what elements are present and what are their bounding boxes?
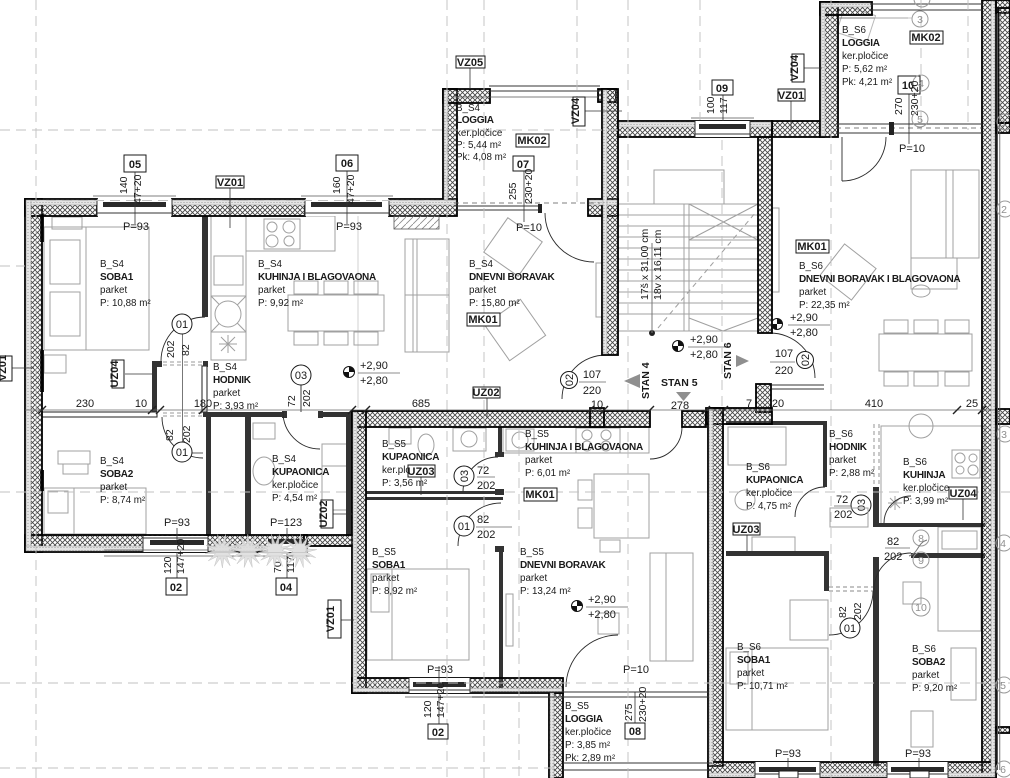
svg-text:230: 230 xyxy=(76,398,94,410)
svg-text:202: 202 xyxy=(477,480,495,492)
svg-text:4: 4 xyxy=(1000,538,1006,550)
svg-text:P=93: P=93 xyxy=(905,748,931,760)
svg-text:P: 8,92 m²: P: 8,92 m² xyxy=(372,586,418,597)
svg-text:+2,90: +2,90 xyxy=(790,312,818,324)
svg-text:01: 01 xyxy=(458,521,470,533)
svg-text:MK02: MK02 xyxy=(911,32,940,44)
svg-text:MK01: MK01 xyxy=(468,314,497,326)
svg-text:7: 7 xyxy=(746,398,752,410)
svg-text:202: 202 xyxy=(884,551,902,563)
svg-text:HODNIK: HODNIK xyxy=(829,442,868,453)
svg-text:ker.pločice: ker.pločice xyxy=(456,128,503,139)
svg-text:02: 02 xyxy=(170,582,182,594)
svg-text:82: 82 xyxy=(477,514,489,526)
svg-text:DNEVNI BORAVAK: DNEVNI BORAVAK xyxy=(520,560,607,571)
svg-text:B_S4: B_S4 xyxy=(100,456,125,467)
svg-text:P=93: P=93 xyxy=(427,664,453,676)
svg-text:P: 2,88 m²: P: 2,88 m² xyxy=(829,468,875,479)
svg-text:VZ01: VZ01 xyxy=(0,355,9,381)
svg-text:P: 10,88 m²: P: 10,88 m² xyxy=(100,298,151,309)
svg-text:120: 120 xyxy=(162,556,174,574)
svg-text:ker.pločice: ker.pločice xyxy=(903,483,950,494)
svg-text:01: 01 xyxy=(176,447,188,459)
svg-text:LOGGIA: LOGGIA xyxy=(456,115,494,126)
svg-text:VZ01: VZ01 xyxy=(778,90,804,102)
svg-text:9: 9 xyxy=(918,555,924,567)
svg-text:parket: parket xyxy=(737,668,765,679)
svg-text:202: 202 xyxy=(477,529,495,541)
svg-text:STAN 6: STAN 6 xyxy=(722,342,734,379)
svg-text:LOGGIA: LOGGIA xyxy=(565,714,603,725)
svg-text:UZ03: UZ03 xyxy=(733,524,760,536)
svg-text:KUPAONICA: KUPAONICA xyxy=(746,475,803,486)
svg-text:230+20: 230+20 xyxy=(637,687,649,722)
svg-text:47+20: 47+20 xyxy=(345,174,357,204)
svg-text:04: 04 xyxy=(280,582,293,594)
svg-text:02: 02 xyxy=(564,374,576,386)
svg-text:202: 202 xyxy=(165,340,177,358)
svg-text:160: 160 xyxy=(331,176,343,194)
svg-text:B_S6: B_S6 xyxy=(746,462,771,473)
svg-text:+2,80: +2,80 xyxy=(588,609,616,621)
svg-text:P: 3,85 m²: P: 3,85 m² xyxy=(565,740,611,751)
svg-text:02: 02 xyxy=(800,354,812,366)
svg-text:82: 82 xyxy=(887,536,899,548)
svg-text:B_S6: B_S6 xyxy=(912,644,937,655)
svg-text:147+20: 147+20 xyxy=(175,539,187,574)
svg-text:6: 6 xyxy=(1000,764,1006,776)
svg-text:parket: parket xyxy=(100,285,128,296)
svg-text:B_S5: B_S5 xyxy=(565,701,590,712)
svg-text:685: 685 xyxy=(412,398,430,410)
svg-text:B_S6: B_S6 xyxy=(903,457,928,468)
svg-text:72: 72 xyxy=(477,465,489,477)
svg-text:parket: parket xyxy=(799,287,827,298)
svg-text:UZ02: UZ02 xyxy=(473,387,500,399)
svg-text:B_S5: B_S5 xyxy=(372,547,397,558)
svg-text:SOBA1: SOBA1 xyxy=(372,560,406,571)
svg-text:03: 03 xyxy=(459,470,471,482)
svg-text:STAN 4: STAN 4 xyxy=(640,362,652,399)
svg-text:+2,90: +2,90 xyxy=(690,334,718,346)
svg-text:KUPAONICA: KUPAONICA xyxy=(382,452,439,463)
svg-text:82: 82 xyxy=(180,344,192,356)
svg-text:KUHINJA I BLAGOVAONA: KUHINJA I BLAGOVAONA xyxy=(258,272,376,283)
svg-text:B_S4: B_S4 xyxy=(456,103,481,114)
svg-text:Pk: 2,89 m²: Pk: 2,89 m² xyxy=(565,753,616,764)
svg-text:P: 8,74 m²: P: 8,74 m² xyxy=(100,495,146,506)
svg-text:47+20: 47+20 xyxy=(132,174,144,204)
svg-text:107: 107 xyxy=(775,348,793,360)
svg-text:10: 10 xyxy=(915,602,927,614)
svg-text:P: 9,92 m²: P: 9,92 m² xyxy=(258,298,304,309)
svg-text:120: 120 xyxy=(422,700,434,718)
svg-text:3: 3 xyxy=(1001,429,1007,441)
svg-text:5: 5 xyxy=(917,114,923,126)
svg-text:Pk: 4,21 m²: Pk: 4,21 m² xyxy=(842,77,893,88)
svg-text:DNEVNI BORAVAK: DNEVNI BORAVAK xyxy=(469,272,556,283)
svg-text:B_S6: B_S6 xyxy=(799,261,824,272)
svg-text:+2,80: +2,80 xyxy=(360,375,388,387)
svg-text:220: 220 xyxy=(775,365,793,377)
svg-text:parket: parket xyxy=(829,455,857,466)
svg-text:KUHINJA I BLAGOVAONA: KUHINJA I BLAGOVAONA xyxy=(525,442,643,453)
svg-text:03: 03 xyxy=(295,370,307,382)
svg-text:72: 72 xyxy=(836,494,848,506)
svg-text:117: 117 xyxy=(718,97,730,114)
svg-text:UZ02: UZ02 xyxy=(318,501,330,528)
svg-text:1: 1 xyxy=(1001,117,1007,129)
svg-text:P: 3,93 m²: P: 3,93 m² xyxy=(213,401,259,412)
svg-text:72: 72 xyxy=(286,395,298,407)
svg-text:ker.pločice: ker.pločice xyxy=(746,488,793,499)
svg-text:B_S5: B_S5 xyxy=(382,439,407,450)
svg-text:STAN 5: STAN 5 xyxy=(661,377,698,389)
svg-text:VZ05: VZ05 xyxy=(457,57,483,69)
svg-text:275: 275 xyxy=(623,703,635,721)
svg-text:VZ04: VZ04 xyxy=(570,97,582,124)
svg-text:B_S4: B_S4 xyxy=(213,362,238,373)
svg-text:B_S6: B_S6 xyxy=(737,642,762,653)
svg-text:01: 01 xyxy=(844,623,856,635)
svg-text:20: 20 xyxy=(772,398,784,410)
svg-text:82: 82 xyxy=(837,606,849,618)
svg-text:03: 03 xyxy=(856,499,868,511)
svg-text:P: 3,99 m²: P: 3,99 m² xyxy=(903,496,949,507)
svg-text:LOGGIA: LOGGIA xyxy=(842,38,880,49)
svg-text:117: 117 xyxy=(285,556,297,573)
svg-text:SOBA2: SOBA2 xyxy=(100,469,134,480)
svg-text:278: 278 xyxy=(671,400,689,412)
svg-text:08: 08 xyxy=(629,726,641,738)
svg-text:P=10: P=10 xyxy=(516,222,542,234)
svg-text:3: 3 xyxy=(917,14,923,26)
svg-text:B_S5: B_S5 xyxy=(520,547,545,558)
svg-text:P: 13,24 m²: P: 13,24 m² xyxy=(520,586,571,597)
svg-text:P=10: P=10 xyxy=(623,664,649,676)
svg-text:2: 2 xyxy=(1001,204,1007,216)
svg-text:P: 15,80 m²: P: 15,80 m² xyxy=(469,298,520,309)
svg-text:202: 202 xyxy=(834,509,852,521)
svg-text:P: 4,75 m²: P: 4,75 m² xyxy=(746,501,792,512)
svg-text:parket: parket xyxy=(469,285,497,296)
svg-text:10: 10 xyxy=(135,398,147,410)
svg-text:01: 01 xyxy=(176,319,188,331)
svg-text:P=93: P=93 xyxy=(164,517,190,529)
svg-text:230+20: 230+20 xyxy=(523,169,535,204)
svg-text:B_S5: B_S5 xyxy=(525,429,550,440)
svg-text:107: 107 xyxy=(583,369,601,381)
svg-text:25: 25 xyxy=(966,398,978,410)
svg-text:P: 10,71 m²: P: 10,71 m² xyxy=(737,681,788,692)
svg-text:B_S6: B_S6 xyxy=(842,25,867,36)
svg-text:180: 180 xyxy=(194,398,212,410)
svg-text:ker.pločice: ker.pločice xyxy=(565,727,612,738)
svg-text:05: 05 xyxy=(129,159,141,171)
svg-text:SOBA2: SOBA2 xyxy=(912,657,946,668)
svg-text:100: 100 xyxy=(705,96,717,114)
svg-text:220: 220 xyxy=(583,385,601,397)
svg-text:VZ01: VZ01 xyxy=(217,177,243,189)
svg-text:MK01: MK01 xyxy=(797,241,826,253)
svg-text:+2,90: +2,90 xyxy=(588,594,616,606)
svg-text:ker.pločice: ker.pločice xyxy=(272,480,319,491)
svg-text:202: 202 xyxy=(301,389,313,407)
svg-text:P: 22,35 m²: P: 22,35 m² xyxy=(799,300,850,311)
svg-text:UZ04: UZ04 xyxy=(109,360,121,388)
svg-text:18v x 16,11 cm: 18v x 16,11 cm xyxy=(652,229,664,300)
svg-text:82: 82 xyxy=(164,429,176,441)
svg-text:parket: parket xyxy=(100,482,128,493)
svg-text:Pk: 4,08 m²: Pk: 4,08 m² xyxy=(456,152,507,163)
svg-text:02: 02 xyxy=(432,727,444,739)
svg-text:06: 06 xyxy=(341,158,353,170)
svg-text:202: 202 xyxy=(181,425,193,443)
svg-text:10: 10 xyxy=(591,399,603,411)
svg-text:B_S6: B_S6 xyxy=(829,429,854,440)
svg-text:+2,90: +2,90 xyxy=(360,360,388,372)
svg-text:VZ04: VZ04 xyxy=(789,54,801,81)
svg-text:410: 410 xyxy=(865,398,883,410)
svg-text:P=10: P=10 xyxy=(899,143,925,155)
svg-text:147+20: 147+20 xyxy=(435,683,447,718)
svg-text:270: 270 xyxy=(893,97,905,115)
svg-text:SOBA1: SOBA1 xyxy=(100,272,134,283)
svg-text:B_S4: B_S4 xyxy=(258,259,283,270)
svg-text:UZ03: UZ03 xyxy=(408,466,435,478)
svg-text:parket: parket xyxy=(912,670,940,681)
svg-text:parket: parket xyxy=(525,455,553,466)
svg-text:parket: parket xyxy=(520,573,548,584)
svg-text:UZ04: UZ04 xyxy=(950,488,978,500)
svg-text:P: 9,20 m²: P: 9,20 m² xyxy=(912,683,958,694)
svg-text:B_S4: B_S4 xyxy=(469,259,494,270)
svg-text:5: 5 xyxy=(1000,680,1006,692)
svg-text:+2,80: +2,80 xyxy=(790,327,818,339)
svg-text:P=123: P=123 xyxy=(270,517,302,529)
svg-text:KUHINJA: KUHINJA xyxy=(903,470,945,481)
svg-text:parket: parket xyxy=(372,573,400,584)
svg-text:VZ01: VZ01 xyxy=(325,606,337,632)
svg-text:255: 255 xyxy=(507,182,519,200)
svg-text:B_S4: B_S4 xyxy=(272,454,297,465)
svg-text:09: 09 xyxy=(716,83,728,95)
svg-text:SOBA1: SOBA1 xyxy=(737,655,771,666)
svg-text:P: 4,54 m²: P: 4,54 m² xyxy=(272,493,318,504)
svg-text:P: 5,62 m²: P: 5,62 m² xyxy=(842,64,888,75)
svg-text:HODNIK: HODNIK xyxy=(213,375,252,386)
svg-text:B_S4: B_S4 xyxy=(100,259,125,270)
svg-text:P: 6,01 m²: P: 6,01 m² xyxy=(525,468,571,479)
svg-text:P=93: P=93 xyxy=(123,221,149,233)
svg-text:KUPAONICA: KUPAONICA xyxy=(272,467,329,478)
svg-text:parket: parket xyxy=(213,388,241,399)
svg-text:P=93: P=93 xyxy=(336,221,362,233)
svg-text:MK01: MK01 xyxy=(525,489,554,501)
svg-text:17š x 31,00 cm: 17š x 31,00 cm xyxy=(639,229,651,300)
svg-text:P: 5,44 m²: P: 5,44 m² xyxy=(456,140,502,151)
svg-text:202: 202 xyxy=(852,602,864,620)
svg-text:DNEVNI BORAVAK I BLAGOVAONA: DNEVNI BORAVAK I BLAGOVAONA xyxy=(799,274,960,285)
svg-text:+2,80: +2,80 xyxy=(690,349,718,361)
svg-text:ker.pločice: ker.pločice xyxy=(842,51,889,62)
svg-text:MK02: MK02 xyxy=(517,135,546,147)
svg-text:parket: parket xyxy=(258,285,286,296)
svg-text:140: 140 xyxy=(118,176,130,194)
